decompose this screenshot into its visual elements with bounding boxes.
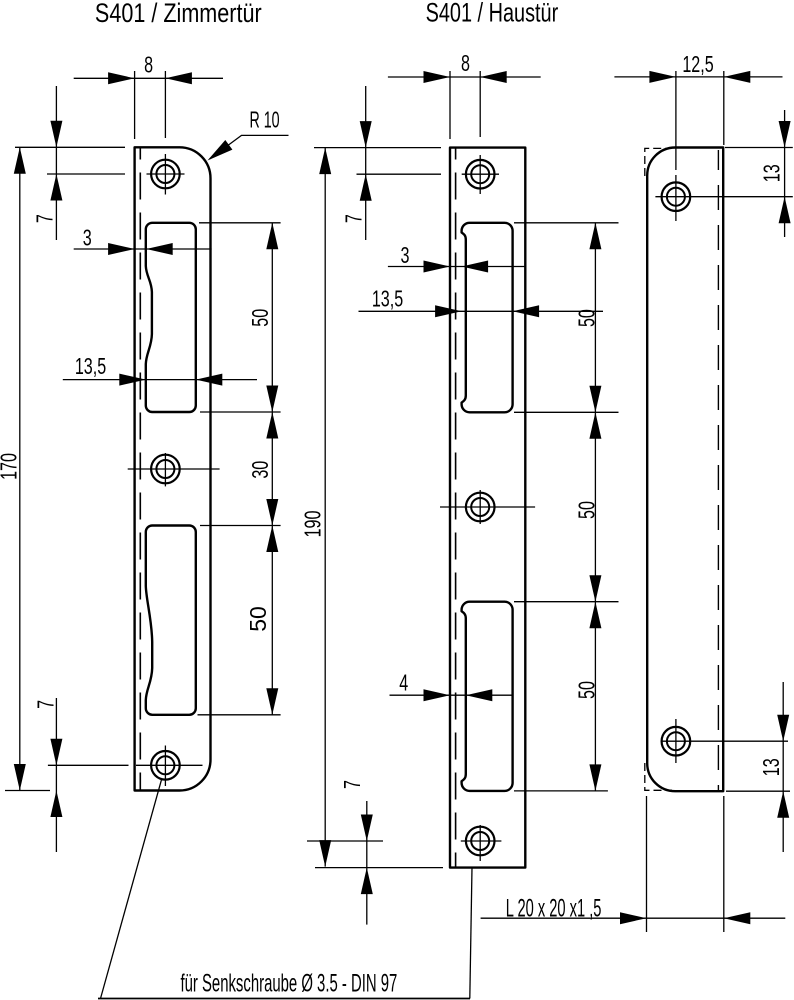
svg-text:13,5: 13,5 bbox=[75, 354, 106, 379]
screw hole top side view bbox=[655, 175, 792, 221]
svg-text:7: 7 bbox=[34, 700, 59, 709]
dimension 8 Haustür bbox=[388, 51, 541, 139]
dimension 7 top Haustür bbox=[314, 86, 441, 240]
plate outline Haustür front view bbox=[450, 148, 525, 868]
latch cutout upper Zimmertür with wavy lip edge bbox=[146, 223, 196, 412]
svg-text:50: 50 bbox=[575, 681, 600, 699]
dimension 7 top Zimmertür bbox=[15, 86, 125, 240]
title Haustür bbox=[426, 0, 559, 28]
note für Senkschraube bbox=[180, 969, 397, 997]
dimension 13,5 Haustür bbox=[359, 287, 604, 317]
dimension 190 Haustür bbox=[301, 148, 332, 867]
dimension 13,5 Zimmertür bbox=[63, 354, 257, 385]
svg-text:S401 / Zimmertür: S401 / Zimmertür bbox=[95, 0, 262, 29]
phantom corner bottom-left side view bbox=[645, 763, 672, 790]
dimension 8 Zimmertür bbox=[74, 53, 223, 139]
dimension 4 Haustür bbox=[390, 671, 514, 701]
svg-text:170: 170 bbox=[0, 453, 22, 480]
dimension 7 bottom Zimmertür bbox=[5, 698, 129, 852]
svg-text:für Senkschraube Ø 3.5 - DIN 9: für Senkschraube Ø 3.5 - DIN 97 bbox=[180, 969, 397, 997]
svg-text:7: 7 bbox=[340, 780, 365, 789]
svg-text:50: 50 bbox=[575, 501, 600, 519]
dimension 3 Haustür bbox=[388, 243, 526, 272]
svg-text:13: 13 bbox=[760, 758, 785, 776]
svg-text:3: 3 bbox=[401, 243, 410, 268]
dimension 3 Zimmertür bbox=[74, 226, 212, 255]
svg-text:50: 50 bbox=[575, 309, 600, 327]
svg-text:R 10: R 10 bbox=[250, 108, 280, 133]
dimension R 10 leader bbox=[204, 108, 289, 165]
dimension chain 50 30 50 Zimmertür bbox=[198, 223, 281, 715]
svg-text:S401 / Haustür: S401 / Haustür bbox=[426, 0, 559, 28]
dimension 170 Zimmertür bbox=[0, 147, 26, 790]
plate outline side view bbox=[647, 148, 723, 792]
dimension 7 bottom Haustür bbox=[307, 780, 443, 925]
title Zimmertür bbox=[95, 0, 262, 29]
screw hole top Zimmertür bbox=[147, 154, 185, 195]
svg-text:12,5: 12,5 bbox=[682, 52, 713, 77]
dimension 13 top side view bbox=[725, 110, 793, 237]
latch cutout lower Haustür with lip bbox=[462, 602, 513, 791]
dimension 12,5 side view bbox=[614, 52, 782, 170]
leader line from bottom screw hole Haustür bbox=[470, 868, 472, 999]
screw hole middle Zimmertür bbox=[128, 453, 220, 486]
plate outline Zimmertür front view bbox=[135, 147, 211, 790]
screw hole bottom Zimmertür bbox=[136, 746, 203, 787]
bend dashed line Zimmertür bbox=[139, 149, 141, 791]
svg-text:13,5: 13,5 bbox=[372, 287, 403, 312]
phantom corner top-left side view bbox=[645, 148, 672, 176]
bend dashed line Haustür bbox=[455, 149, 457, 867]
screw hole bottom Haustür bbox=[461, 825, 502, 861]
screw hole middle Haustür bbox=[440, 490, 535, 524]
svg-text:3: 3 bbox=[83, 226, 92, 251]
screw hole bottom side view bbox=[662, 719, 788, 763]
svg-text:7: 7 bbox=[342, 214, 367, 223]
dimension chain 50 50 50 Haustür bbox=[514, 223, 619, 791]
svg-text:4: 4 bbox=[399, 671, 408, 696]
dimension 13 bottom side view bbox=[726, 682, 790, 852]
svg-text:8: 8 bbox=[144, 53, 153, 78]
hidden edge dashed line side view bbox=[717, 150, 719, 790]
note underline connecting both leaders bbox=[98, 998, 470, 1000]
svg-text:30: 30 bbox=[248, 461, 273, 479]
latch cutout lower Zimmertür with wavy lip edge bbox=[146, 526, 196, 715]
dimension L 20 x 20 x1,5 bbox=[481, 796, 786, 932]
latch cutout upper Haustür with lip bbox=[462, 223, 513, 412]
svg-text:8: 8 bbox=[461, 51, 470, 76]
screw hole top Haustür bbox=[462, 155, 499, 194]
svg-text:190: 190 bbox=[301, 511, 326, 538]
svg-text:50: 50 bbox=[245, 606, 271, 632]
svg-text:50: 50 bbox=[248, 309, 273, 327]
svg-text:13: 13 bbox=[760, 164, 785, 182]
leader line from bottom screw hole Zimmertür bbox=[101, 779, 162, 998]
svg-text:7: 7 bbox=[33, 214, 58, 223]
svg-text:L 20 x 20 x1 ,5: L 20 x 20 x1 ,5 bbox=[506, 894, 602, 922]
